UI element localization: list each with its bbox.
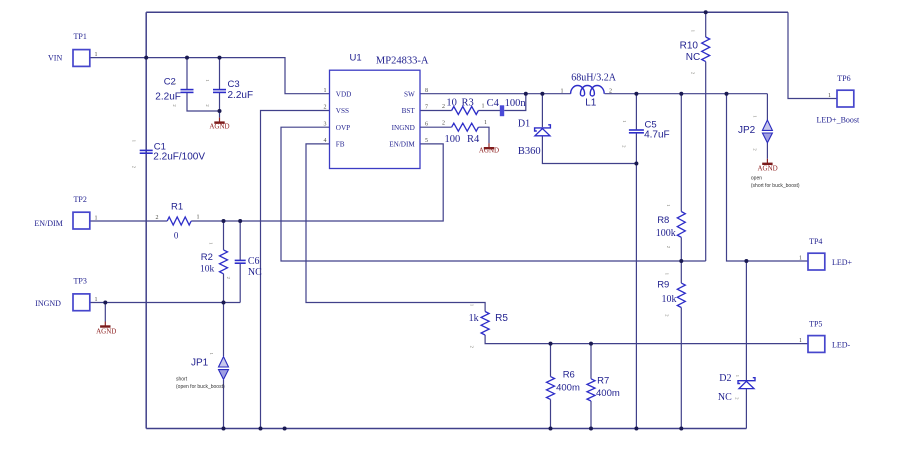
node VOUT at R8 xyxy=(679,92,683,96)
svg-text:1: 1 xyxy=(691,30,696,32)
svg-text:MP24833-A: MP24833-A xyxy=(376,56,429,67)
testpoint TP1 xyxy=(73,50,90,67)
node VIN at left rail xyxy=(144,56,148,60)
svg-text:100: 100 xyxy=(445,134,461,145)
svg-text:C6: C6 xyxy=(248,256,260,267)
svg-text:LED+_Boost: LED+_Boost xyxy=(817,116,861,125)
svg-text:R6: R6 xyxy=(563,369,575,380)
resistor R4 xyxy=(452,123,479,131)
svg-text:short: short xyxy=(176,377,188,383)
svg-text:R5: R5 xyxy=(495,313,508,324)
svg-text:L1: L1 xyxy=(585,97,597,108)
svg-text:1: 1 xyxy=(324,88,327,94)
svg-text:R2: R2 xyxy=(201,252,213,263)
svg-text:OVP: OVP xyxy=(336,124,350,132)
svg-text:R10: R10 xyxy=(680,41,699,52)
wire R10 bottom stub xyxy=(705,62,707,261)
capacitor C6 xyxy=(235,259,246,261)
svg-text:R3: R3 xyxy=(462,97,474,108)
svg-text:2: 2 xyxy=(609,89,612,95)
diode D1 B360 xyxy=(535,125,551,131)
node VOUT at C5 xyxy=(634,92,638,96)
node PGND at VSS xyxy=(259,427,263,431)
resistor R3 xyxy=(452,107,479,115)
svg-text:2: 2 xyxy=(132,166,137,168)
svg-text:INGND: INGND xyxy=(392,124,415,132)
wire TP6 riser LED+_Boost xyxy=(788,12,837,98)
svg-text:VDD: VDD xyxy=(336,90,352,98)
wire R3 to C4 xyxy=(478,110,500,112)
svg-text:2: 2 xyxy=(665,314,670,316)
svg-text:4.7uF: 4.7uF xyxy=(644,130,670,141)
svg-text:7: 7 xyxy=(425,105,428,111)
svg-text:TP4: TP4 xyxy=(809,237,822,246)
svg-text:AGND: AGND xyxy=(479,147,499,155)
capacitor C3 xyxy=(213,89,226,91)
svg-text:2: 2 xyxy=(324,105,327,111)
svg-text:1: 1 xyxy=(209,242,214,244)
wire R7 top xyxy=(590,344,592,379)
node PGND stray xyxy=(283,427,287,431)
svg-text:NC: NC xyxy=(686,52,700,63)
svg-text:B360: B360 xyxy=(518,146,541,157)
wire VIN top rail xyxy=(146,11,788,13)
wire SW rail left xyxy=(420,93,571,95)
wire INGND pin6 to R4 xyxy=(420,126,452,128)
svg-text:AGND: AGND xyxy=(757,165,777,173)
testpoint TP2 xyxy=(73,212,90,229)
wire TP2 to R1 xyxy=(90,220,167,222)
svg-text:BST: BST xyxy=(402,107,416,115)
svg-text:TP6: TP6 xyxy=(837,74,850,83)
svg-text:1: 1 xyxy=(197,215,200,221)
node ENDIM at C6 xyxy=(238,219,242,223)
node PGND at R6 xyxy=(549,427,553,431)
svg-text:TP1: TP1 xyxy=(74,32,87,41)
wire D2 top xyxy=(745,261,747,380)
svg-text:C3: C3 xyxy=(228,79,240,90)
svg-text:D1: D1 xyxy=(518,119,530,130)
svg-text:400m: 400m xyxy=(556,382,580,393)
svg-text:1: 1 xyxy=(828,93,831,99)
svg-text:NC: NC xyxy=(248,267,262,278)
svg-text:FB: FB xyxy=(336,141,345,149)
svg-text:1: 1 xyxy=(735,375,740,377)
svg-text:2: 2 xyxy=(470,346,475,348)
svg-text:LED+: LED+ xyxy=(832,258,853,267)
wire PGND bottom rail xyxy=(146,428,746,430)
node LED- at R7 xyxy=(589,342,593,346)
node SW at C4 xyxy=(524,92,528,96)
svg-text:SW: SW xyxy=(404,90,415,98)
svg-text:2: 2 xyxy=(753,148,758,150)
wire C6 bottom xyxy=(239,263,241,302)
resistor R2 xyxy=(220,250,228,274)
wire R8 bottom xyxy=(680,237,682,261)
node LED- at R6 xyxy=(549,342,553,346)
svg-text:2: 2 xyxy=(226,277,231,279)
ground AGND below TP3 xyxy=(104,322,106,327)
wire JP1 to bottom rail xyxy=(223,380,225,429)
ground AGND below C3 xyxy=(219,118,221,123)
svg-text:1: 1 xyxy=(799,338,802,344)
svg-text:0: 0 xyxy=(174,230,179,240)
resistor R7 xyxy=(587,379,595,401)
svg-text:2.2uF/100V: 2.2uF/100V xyxy=(153,152,205,163)
svg-text:1k: 1k xyxy=(469,313,479,324)
node PGND at JP1 xyxy=(222,427,226,431)
wire C5 bottom to rail xyxy=(635,133,637,429)
svg-text:2: 2 xyxy=(172,104,177,106)
node D1-C5 xyxy=(634,162,638,166)
svg-text:VIN: VIN xyxy=(48,53,62,62)
wire C3 branch top xyxy=(219,58,221,90)
wire D1 bottom to C5 xyxy=(542,136,636,164)
resistor R1 xyxy=(167,217,191,225)
svg-text:EN/DIM: EN/DIM xyxy=(389,141,415,149)
svg-text:8: 8 xyxy=(425,88,428,94)
svg-text:R7: R7 xyxy=(597,376,609,387)
wire C3 branch to AGND xyxy=(219,93,221,118)
svg-text:1: 1 xyxy=(753,115,758,117)
svg-text:1: 1 xyxy=(132,140,137,142)
svg-text:open: open xyxy=(751,176,762,182)
wire D1 top xyxy=(541,94,543,128)
wire VIN left rail xyxy=(145,12,147,428)
svg-text:2: 2 xyxy=(734,397,739,399)
svg-text:1: 1 xyxy=(205,79,210,81)
resistor R5 xyxy=(481,312,489,336)
wire R4 to AGND xyxy=(478,127,489,143)
svg-text:C4: C4 xyxy=(487,98,500,109)
svg-text:NC: NC xyxy=(718,392,732,403)
wire R2 bottom to INGND xyxy=(223,274,225,303)
svg-text:6: 6 xyxy=(425,121,428,127)
capacitor C5 xyxy=(629,129,644,131)
svg-text:1: 1 xyxy=(799,255,802,261)
svg-text:1: 1 xyxy=(470,304,475,306)
svg-text:1: 1 xyxy=(666,204,671,206)
svg-text:EN/DIM: EN/DIM xyxy=(34,219,62,228)
ground AGND below R4 xyxy=(488,143,490,148)
wire FB to R5 xyxy=(306,144,485,312)
svg-text:2: 2 xyxy=(622,145,627,147)
wire C4 to SW xyxy=(504,94,526,111)
svg-text:1: 1 xyxy=(482,104,485,110)
wire JP2 top stub xyxy=(766,94,768,120)
IC U1 MP24833-A xyxy=(330,70,421,168)
wire BST to R3 xyxy=(420,110,452,112)
svg-text:100k: 100k xyxy=(656,228,676,239)
svg-text:(open for buck_boost): (open for buck_boost) xyxy=(176,384,225,390)
svg-text:JP2: JP2 xyxy=(738,125,756,136)
svg-text:400m: 400m xyxy=(596,388,620,399)
wire SW rail right of L1 xyxy=(605,93,768,95)
svg-text:10: 10 xyxy=(446,97,457,108)
svg-text:2.2uF: 2.2uF xyxy=(155,92,181,103)
node VIN at C2 xyxy=(185,56,189,60)
svg-text:1: 1 xyxy=(665,273,670,275)
svg-text:68uH/3.2A: 68uH/3.2A xyxy=(571,72,617,83)
svg-text:VSS: VSS xyxy=(336,107,349,115)
svg-text:JP1: JP1 xyxy=(191,358,209,369)
node SW at D1 xyxy=(540,92,544,96)
wire R7 bottom xyxy=(590,401,592,429)
wire R2 top xyxy=(223,221,225,250)
wire OVP to LED+ rail xyxy=(281,127,706,261)
wire R9 bottom to rail xyxy=(680,308,682,429)
node PGND at R9 xyxy=(679,427,683,431)
svg-text:(short for buck_boost): (short for buck_boost) xyxy=(751,183,800,189)
svg-text:AGND: AGND xyxy=(209,123,229,131)
capacitor C2 xyxy=(181,89,194,91)
wire R5 to LED- rail xyxy=(485,335,808,344)
node VIN at R10 xyxy=(704,10,708,14)
svg-text:1: 1 xyxy=(561,89,564,95)
wire JP2 bottom stub xyxy=(766,143,768,159)
testpoint TP5 xyxy=(808,336,825,353)
jumper JP1 xyxy=(219,357,229,367)
svg-text:5: 5 xyxy=(425,138,428,144)
svg-text:1: 1 xyxy=(484,120,487,126)
svg-text:R4: R4 xyxy=(467,134,480,145)
svg-text:LED-: LED- xyxy=(832,341,851,350)
svg-text:R1: R1 xyxy=(171,202,183,213)
svg-text:4: 4 xyxy=(324,138,327,144)
svg-text:1: 1 xyxy=(95,216,98,222)
wire D2 bottom xyxy=(745,389,747,429)
svg-text:2: 2 xyxy=(666,246,671,248)
testpoint TP4 xyxy=(808,253,825,270)
svg-text:2: 2 xyxy=(691,72,696,74)
svg-text:1: 1 xyxy=(95,297,98,303)
svg-text:TP3: TP3 xyxy=(74,277,87,286)
node PGND at C5 xyxy=(634,427,638,431)
testpoint TP3 xyxy=(73,294,90,311)
svg-text:R8: R8 xyxy=(657,215,669,226)
wire C2 branch top xyxy=(186,58,188,90)
wire C2 branch bottom xyxy=(187,93,220,111)
node INGND at R2 xyxy=(222,301,226,305)
capacitor C4 xyxy=(500,105,504,116)
node C2-C3 AGND link xyxy=(218,109,222,113)
wire C6 top xyxy=(239,221,241,260)
svg-text:2: 2 xyxy=(205,104,210,106)
wire R10 top stub xyxy=(705,12,707,37)
svg-text:10k: 10k xyxy=(662,294,677,305)
svg-text:1: 1 xyxy=(622,120,627,122)
svg-text:10k: 10k xyxy=(200,265,215,275)
wire R9 top xyxy=(680,261,682,283)
capacitor C1 xyxy=(140,149,153,151)
svg-text:1: 1 xyxy=(95,52,98,58)
svg-text:TP5: TP5 xyxy=(809,320,822,329)
svg-text:D2: D2 xyxy=(719,373,731,384)
wire R8 top xyxy=(680,94,682,212)
resistor R8 xyxy=(677,212,685,238)
svg-text:2: 2 xyxy=(442,104,445,110)
svg-text:2: 2 xyxy=(442,121,445,127)
ground AGND below JP2 xyxy=(766,159,768,164)
wire R6 bottom xyxy=(550,399,552,428)
node LED+ at D2 xyxy=(744,259,748,263)
svg-text:AGND: AGND xyxy=(96,328,116,336)
svg-text:1: 1 xyxy=(209,353,214,355)
node PGND at R7 xyxy=(589,427,593,431)
node LED+ at R8 R9 xyxy=(679,259,683,263)
wire TP1 to VDD corner xyxy=(90,58,330,94)
jumper JP2 xyxy=(762,120,772,130)
resistor R10 xyxy=(702,37,710,62)
wire R6 top xyxy=(550,344,552,377)
wire VSS to bottom rail xyxy=(261,111,330,429)
svg-text:U1: U1 xyxy=(350,53,362,64)
node INGND at AGND stub xyxy=(103,301,107,305)
resistor R6 xyxy=(547,377,555,400)
svg-text:100n: 100n xyxy=(505,98,527,109)
testpoint TP6 xyxy=(837,90,854,107)
wire C5 top xyxy=(635,94,637,130)
node VIN at C3 xyxy=(218,56,222,60)
wire R2 node to JP1 xyxy=(223,303,225,357)
svg-text:1: 1 xyxy=(172,83,177,85)
svg-text:2.2uF: 2.2uF xyxy=(228,90,254,101)
svg-text:TP2: TP2 xyxy=(74,195,87,204)
svg-text:3: 3 xyxy=(324,121,327,127)
inductor L1 xyxy=(571,86,605,97)
resistor R9 xyxy=(677,283,685,307)
wire AGND stub TP3 xyxy=(104,303,106,322)
wire ENDIM pin5 to R1 xyxy=(191,144,443,221)
wire TP3 INGND xyxy=(90,302,240,304)
node ENDIM at R2 xyxy=(222,219,226,223)
svg-text:2: 2 xyxy=(156,215,159,221)
node VOUT at LED+ riser xyxy=(725,92,729,96)
svg-text:INGND: INGND xyxy=(35,299,61,308)
wire LED+ riser xyxy=(727,94,809,261)
diode D2 zener NC xyxy=(738,378,755,384)
svg-text:R9: R9 xyxy=(657,280,669,291)
